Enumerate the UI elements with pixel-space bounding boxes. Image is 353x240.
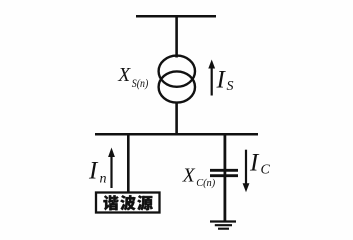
svg-text:X: X — [182, 166, 196, 187]
svg-text:I: I — [88, 158, 99, 185]
arrow I_C — [245, 150, 247, 184]
wire from top bus to source — [175, 15, 178, 58]
arrow I_n — [110, 156, 112, 188]
wire from bus through capacitor to ground — [223, 133, 226, 222]
svg-text:X: X — [117, 65, 131, 86]
capacitor C plates — [210, 169, 238, 172]
box text 谐波源 — [103, 195, 152, 210]
harmonic source box — [96, 193, 160, 213]
wire from source to lower bus — [175, 102, 178, 136]
svg-text:n: n — [100, 172, 107, 187]
svg-text:C: C — [261, 163, 271, 178]
svg-text:C(n): C(n) — [196, 177, 215, 189]
source / transformer U1 (two overlapping circles) — [159, 56, 195, 87]
ground — [210, 220, 236, 222]
top bus — [136, 15, 216, 18]
svg-text:S(n): S(n) — [132, 78, 149, 90]
svg-text:I: I — [249, 150, 260, 177]
svg-text:I: I — [216, 67, 227, 94]
svg-text:S: S — [227, 79, 234, 94]
lower bus — [95, 133, 258, 136]
wire from bus to harmonic source box — [127, 133, 130, 192]
arrow I_S — [211, 67, 213, 96]
